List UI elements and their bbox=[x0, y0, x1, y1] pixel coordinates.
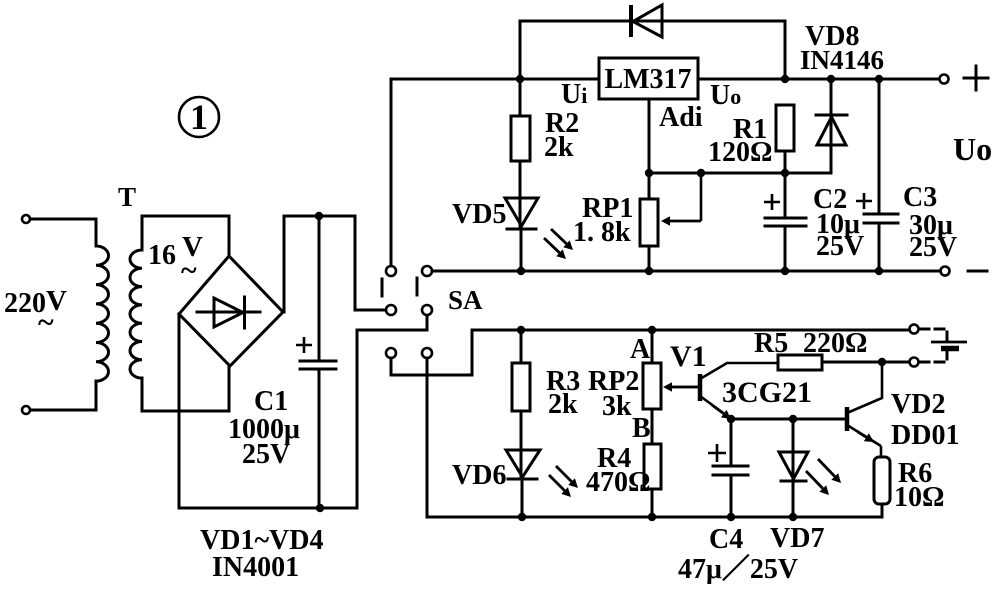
node VD7 top bbox=[789, 415, 797, 423]
svg-text:25V: 25V bbox=[242, 439, 290, 470]
wire switch down-throw left loop bbox=[391, 330, 472, 375]
svg-text:Adi: Adi bbox=[659, 102, 703, 133]
svg-text:220Ω: 220Ω bbox=[803, 328, 867, 359]
transformer T secondary winding bbox=[130, 250, 142, 378]
LED VD5 bbox=[505, 198, 538, 226]
switch SA contact circles bbox=[386, 266, 396, 276]
wire secondary top bbox=[142, 216, 229, 256]
svg-text:2k: 2k bbox=[544, 132, 574, 163]
svg-text:2k: 2k bbox=[548, 389, 578, 420]
diode VD9 triangle bbox=[633, 5, 662, 37]
wire charger plus rail bbox=[472, 329, 910, 332]
wire ADJ bbox=[648, 99, 651, 199]
node circled 1 bbox=[179, 97, 219, 137]
node C1 bottom junction bbox=[316, 504, 324, 512]
wire V1 emitter rail bbox=[731, 418, 847, 421]
capacitor C1 bbox=[318, 216, 321, 508]
potentiometer RP2 bbox=[651, 330, 654, 444]
svg-text:3CG21: 3CG21 bbox=[722, 376, 812, 409]
svg-text:LM317: LM317 bbox=[604, 64, 691, 95]
resistor R6 bbox=[874, 457, 890, 504]
wire output rail bbox=[698, 78, 940, 81]
potentiometer RP1 wiper bbox=[700, 173, 703, 221]
svg-text:C3: C3 bbox=[903, 182, 937, 213]
wire switch up-throw right to regulator ground rail bbox=[432, 270, 941, 273]
svg-text:25V: 25V bbox=[816, 231, 864, 262]
svg-text:Ui: Ui bbox=[561, 79, 587, 110]
wire C1 plus to switch pole A bbox=[355, 216, 385, 310]
node VD5 bottom bbox=[517, 267, 525, 275]
battery pack dashed bbox=[920, 329, 947, 341]
terminal AC input bottom bbox=[22, 406, 30, 414]
svg-text:IN4001: IN4001 bbox=[212, 552, 299, 583]
transistor V1 bbox=[698, 374, 703, 401]
svg-text:C4: C4 bbox=[709, 524, 743, 555]
svg-text:1. 8k: 1. 8k bbox=[573, 217, 631, 248]
diode VD9 cathode bar bbox=[629, 5, 633, 37]
capacitor C3 bbox=[878, 79, 881, 271]
terminal charger minus bbox=[910, 358, 919, 367]
svg-text:R5: R5 bbox=[754, 328, 788, 359]
node RP1 bottom bbox=[645, 267, 653, 275]
transistor VD2 bbox=[845, 407, 850, 431]
node C1 top junction bbox=[315, 212, 323, 220]
node R1 bottom junction bbox=[781, 169, 789, 177]
svg-text:T: T bbox=[118, 182, 136, 212]
svg-text:VD2: VD2 bbox=[891, 389, 945, 420]
wire ADJ horizontal bbox=[649, 172, 831, 175]
svg-text:B: B bbox=[632, 413, 651, 444]
LED VD7 bbox=[792, 419, 795, 481]
resistor R4 bbox=[644, 444, 661, 489]
svg-text:16: 16 bbox=[148, 240, 176, 271]
wire switch up-throw to regulator input rail bbox=[391, 79, 599, 266]
svg-text:120Ω: 120Ω bbox=[708, 137, 772, 168]
node R4 bottom bbox=[648, 513, 656, 521]
svg-text:A: A bbox=[630, 334, 651, 365]
wire switch pole B to C1 minus bbox=[357, 316, 427, 508]
svg-text:10Ω: 10Ω bbox=[894, 482, 944, 513]
svg-text:~: ~ bbox=[181, 254, 197, 287]
node wiper junction bbox=[697, 169, 705, 177]
potentiometer RP2 wiper to V1 base bbox=[668, 386, 700, 389]
wire bbox=[30, 381, 96, 410]
wire charger ground rail bbox=[427, 516, 882, 519]
node R2 top bbox=[516, 75, 524, 83]
svg-text:3k: 3k bbox=[602, 391, 632, 422]
node R5 right bbox=[878, 358, 886, 366]
bridge rectifier VD1-VD4 diamond bbox=[179, 256, 283, 366]
node C4 top bbox=[727, 415, 735, 423]
resistor R2 bbox=[519, 79, 522, 229]
capacitor C2 bbox=[784, 173, 787, 271]
protection diode loop across LM317 bbox=[520, 21, 785, 79]
terminal charger plus bbox=[910, 325, 919, 334]
svg-text:SA: SA bbox=[448, 285, 483, 315]
svg-text:Uo: Uo bbox=[953, 131, 992, 167]
node R3 top bbox=[517, 326, 525, 334]
wire bridge minus to ground rail bbox=[179, 314, 357, 508]
wire bbox=[30, 219, 96, 246]
diode VD8 bbox=[830, 79, 833, 173]
LED VD5 light arrows bbox=[551, 229, 567, 244]
svg-text:VD7: VD7 bbox=[770, 523, 824, 554]
LED VD6 bbox=[506, 450, 540, 477]
svg-text:VD6: VD6 bbox=[452, 460, 506, 491]
wire bridge plus up to top rail bbox=[284, 216, 355, 312]
capacitor C4 bbox=[730, 419, 733, 517]
terminal output minus bbox=[941, 267, 950, 276]
svg-text:470Ω: 470Ω bbox=[586, 467, 650, 498]
node ADJ junction bbox=[645, 169, 653, 177]
svg-text:VD5: VD5 bbox=[452, 199, 506, 230]
resistor R3 bbox=[520, 330, 523, 479]
transformer T primary winding bbox=[96, 246, 109, 381]
node C3 top bbox=[875, 75, 883, 83]
node R1 top bbox=[781, 75, 789, 83]
svg-text:220V: 220V bbox=[4, 285, 67, 319]
svg-text:~: ~ bbox=[38, 306, 54, 339]
svg-text:47μ／25V: 47μ／25V bbox=[678, 553, 798, 585]
node VD6 bottom bbox=[518, 513, 526, 521]
terminal output plus bbox=[940, 75, 949, 84]
svg-text:V1: V1 bbox=[670, 340, 707, 373]
wire switch down-throw right to charger ground bbox=[426, 358, 429, 517]
resistor R1 bbox=[776, 105, 794, 151]
node RP2 top / A bbox=[648, 326, 656, 334]
svg-text:1: 1 bbox=[190, 97, 208, 137]
svg-text:Uo: Uo bbox=[710, 80, 741, 111]
svg-text:IN4146: IN4146 bbox=[800, 45, 884, 75]
potentiometer RP1 bbox=[640, 199, 658, 246]
svg-text:C1: C1 bbox=[254, 386, 288, 417]
regulator U1 LM317 bbox=[599, 58, 698, 99]
wire secondary bottom bbox=[142, 366, 229, 411]
svg-text:DD01: DD01 bbox=[891, 420, 959, 451]
terminal AC input top bbox=[22, 215, 30, 223]
svg-text:25V: 25V bbox=[909, 232, 957, 263]
resistor R5 bbox=[778, 355, 822, 370]
switch SA lever marks bbox=[382, 278, 417, 296]
bridge internal diode symbol bbox=[197, 311, 260, 314]
node VD8 top bbox=[827, 75, 835, 83]
